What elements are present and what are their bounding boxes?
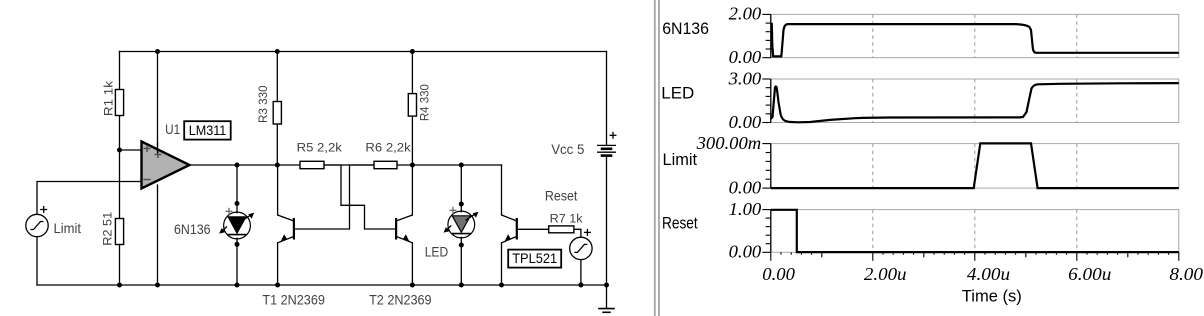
wire R7 to Reset source (574, 229, 581, 237)
resistor R7 (549, 213, 583, 232)
battery Vcc 5 (551, 132, 616, 157)
node T1 emitter at bottom rail (275, 283, 280, 288)
node LED anode (459, 202, 464, 207)
svg-text:0.00: 0.00 (729, 47, 762, 67)
wire R1 column (119, 52, 121, 90)
svg-text:3.00: 3.00 (728, 68, 762, 88)
node R4 R6 T2-collector (410, 163, 415, 168)
wire R4 branch lower (411, 116, 413, 165)
svg-text:Limit: Limit (663, 150, 698, 169)
svg-text:8.00u: 8.00u (1169, 264, 1204, 284)
node R4 at top rail (410, 49, 415, 54)
plot frames (771, 14, 1179, 252)
panel divider (655, 0, 659, 316)
x axis labels (762, 264, 1204, 284)
op-amp U1 LM311 (142, 121, 190, 188)
voltage source Limit (26, 206, 81, 237)
node T2 emitter at bottom rail (410, 283, 415, 288)
wire op-amp output row (190, 164, 502, 166)
svg-text:R6 2,2k: R6 2,2k (365, 143, 411, 155)
wire T1 collector (277, 165, 279, 215)
svg-text:R4 330: R4 330 (420, 84, 432, 121)
node op-amp V+ at top rail (155, 49, 160, 54)
node R3 at top rail (275, 49, 280, 54)
trace Reset (771, 210, 1179, 252)
svg-text:6.00u: 6.00u (1068, 264, 1111, 284)
svg-text:LED: LED (425, 244, 449, 260)
svg-text:TPL521: TPL521 (512, 250, 557, 266)
node 6N136 cathode (235, 242, 240, 247)
wire ground stem (606, 285, 608, 308)
svg-text:Reset: Reset (662, 214, 698, 233)
svg-text:R1 1k: R1 1k (104, 81, 116, 116)
svg-text:R2 51: R2 51 (103, 212, 115, 246)
voltage source Reset (545, 188, 592, 260)
wire TPL521 collector drop (501, 165, 503, 215)
svg-text:T1 2N2369: T1 2N2369 (262, 292, 325, 308)
wire 6N136 branch lower (236, 238, 238, 285)
gridlines dashed (873, 14, 1077, 252)
LED indicator (425, 207, 479, 260)
wire op-amp V+ supply (157, 52, 159, 146)
svg-text:300.00m: 300.00m (696, 133, 762, 153)
wire R2 to bottom rail (119, 245, 121, 286)
svg-text:Reset: Reset (545, 188, 578, 204)
wire TPL521 emitter to bottom rail (501, 243, 503, 285)
wire R4 branch upper (411, 52, 413, 94)
optocoupler output transistor TPL521 (502, 215, 517, 243)
wire T2 emitter to bottom rail (411, 243, 413, 285)
node Vcc at bottom rail (604, 283, 609, 288)
y axes with ticks (770, 14, 772, 252)
svg-text:2.00u: 2.00u (864, 264, 907, 284)
wire Vcc column lower (606, 157, 608, 285)
resistor R2 (103, 212, 124, 246)
svg-text:R5 2,2k: R5 2,2k (297, 143, 343, 155)
svg-text:Time (s): Time (s) (962, 286, 1022, 305)
resistor R5 (297, 143, 343, 169)
wire op-amp V- supply (157, 185, 159, 285)
transistor T1 2N2369 (262, 215, 325, 308)
y axis labels (696, 4, 762, 262)
svg-text:6N136: 6N136 (662, 19, 709, 38)
node R3 R5 T1-collector (275, 163, 280, 168)
node 6N136 at output row (235, 163, 240, 168)
node TPL521 emitter at bottom rail (499, 283, 504, 288)
svg-text:4.00u: 4.00u (967, 264, 1010, 284)
svg-text:0.00: 0.00 (762, 264, 795, 284)
resistor R4 (408, 84, 431, 121)
node 6N136 at bottom rail (235, 283, 240, 288)
svg-text:6N136: 6N136 (174, 221, 211, 237)
wire Reset source to bottom rail (580, 260, 582, 285)
wire LED branch lower (460, 237, 462, 285)
wire T1 emitter to bottom rail (277, 243, 279, 285)
label box LM311 (184, 121, 231, 139)
resistor R3 (258, 85, 281, 124)
svg-text:Limit: Limit (54, 220, 82, 236)
trace Limit (771, 143, 1179, 188)
wire R1 to node (119, 116, 121, 151)
wire 6N136 branch upper (236, 165, 238, 213)
node noninverting input divider (117, 148, 122, 153)
svg-text:2.00: 2.00 (729, 4, 762, 24)
svg-text:0.00: 0.00 (729, 242, 762, 262)
svg-text:0.00: 0.00 (729, 112, 762, 132)
wire noninverting input (120, 149, 142, 151)
wire T2 collector (411, 165, 413, 215)
wire R3 branch upper (276, 52, 278, 102)
trace 6N136 (771, 24, 1179, 57)
wire bottom rail (37, 284, 607, 286)
wire R5 right cross-coupling to T2 base (324, 165, 396, 229)
label box TPL521 (508, 250, 561, 268)
node LED at bottom rail (459, 283, 464, 288)
resistor R1 (104, 81, 124, 116)
wire TPL521 base to R7 (517, 228, 548, 230)
node LED cathode (459, 243, 464, 248)
transistor T2 2N2369 (369, 215, 432, 308)
svg-text:1.00: 1.00 (729, 199, 762, 219)
node R2 at bottom rail (117, 283, 122, 288)
wire top rail (120, 51, 607, 53)
svg-text:R7 1k: R7 1k (550, 213, 583, 225)
ground (598, 309, 615, 313)
svg-text:Vcc 5: Vcc 5 (551, 141, 584, 157)
wire R3 branch lower (276, 124, 278, 165)
wire R6 left cross-coupling to T1 base (295, 165, 374, 229)
node Reset at bottom rail (578, 283, 583, 288)
svg-text:T2 2N2369: T2 2N2369 (369, 292, 432, 308)
resistor R6 (365, 143, 411, 169)
svg-text:R3 330: R3 330 (258, 85, 270, 123)
wire Limit source to bottom rail (36, 237, 38, 285)
svg-text:U1: U1 (165, 121, 180, 137)
optocoupler LED 6N136 (174, 208, 254, 239)
x axis ticks (771, 252, 1179, 260)
svg-text:0.00: 0.00 (729, 177, 762, 197)
wire inverting input to Limit source (37, 182, 141, 215)
wire node to R2 (119, 150, 121, 219)
wire Vcc column upper (606, 52, 608, 145)
wire LED branch upper (460, 165, 462, 212)
node op-amp V- at bottom rail (155, 283, 160, 288)
svg-text:LM311: LM311 (189, 122, 227, 138)
node LED at output row (459, 163, 464, 168)
node 6N136 anode (235, 201, 240, 206)
SCHEMATIC-PANEL (37, 52, 607, 309)
svg-text:LED: LED (661, 83, 694, 102)
trace LED (771, 83, 1179, 122)
